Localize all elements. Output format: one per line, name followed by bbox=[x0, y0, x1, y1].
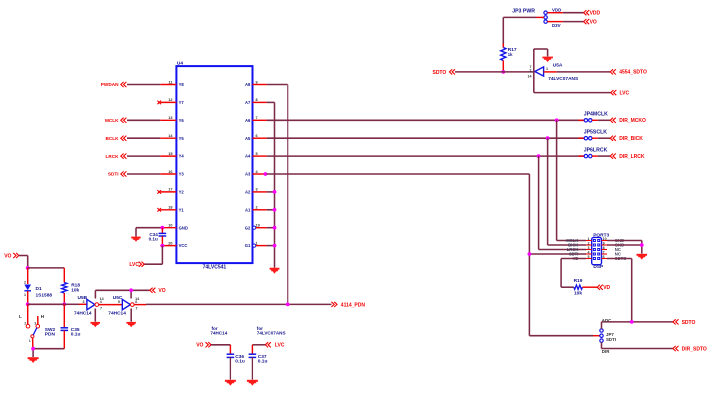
wire U5C output 4114_PDN bbox=[134, 303, 331, 305]
svg-text:1: 1 bbox=[588, 237, 590, 241]
net label VD bbox=[597, 285, 610, 291]
junction A1/ground rail bbox=[273, 208, 277, 212]
svg-text:Y3: Y3 bbox=[179, 172, 185, 177]
junction VO/D1 top bbox=[26, 266, 30, 270]
wire JP3 pin1 to VDD bbox=[547, 12, 583, 14]
capacitor C37 0.1u bbox=[249, 354, 268, 380]
wire SDTO to U5A output bbox=[455, 71, 535, 73]
wire R17 to SDTO net bbox=[502, 61, 504, 72]
svg-text:GND: GND bbox=[179, 225, 188, 230]
svg-text:MCLK: MCLK bbox=[105, 118, 119, 123]
svg-text:10k: 10k bbox=[71, 288, 79, 294]
net label LVC (left) bbox=[129, 262, 144, 268]
svg-text:U5A: U5A bbox=[553, 62, 563, 68]
svg-text:L: L bbox=[19, 314, 22, 319]
PORT3 pin 5 VD (left) bbox=[573, 255, 592, 261]
svg-text:15: 15 bbox=[168, 152, 172, 156]
ground symbol (C37) bbox=[247, 380, 258, 386]
wire PORT3 GND pins to ground bbox=[607, 241, 642, 254]
svg-text:SDTI: SDTI bbox=[606, 337, 616, 342]
junction switch/C35 ground node bbox=[31, 347, 35, 351]
wire A1 to ground rail bbox=[267, 209, 275, 211]
capacitor C36 0.1u bbox=[227, 354, 245, 380]
wire VO to D1/R18 bbox=[19, 256, 28, 268]
junction ADC/SDTO branch bbox=[630, 320, 634, 324]
wire SDTI bus A3 to PORT3/JP7 bbox=[267, 174, 530, 336]
pin 4 A3 of U4 (right) bbox=[245, 170, 267, 177]
pin 8 A7 of U4 (right) bbox=[245, 98, 267, 105]
svg-text:DIR: DIR bbox=[602, 349, 610, 354]
label for 74LVC07ANS bbox=[257, 326, 286, 335]
svg-text:U5B: U5B bbox=[78, 295, 88, 301]
net label 4554_SDTO bbox=[610, 69, 647, 75]
wire LRCK bus A4 to JP6 bbox=[267, 155, 585, 157]
pin 1 G1 of U4 (right) bbox=[245, 241, 267, 248]
net label VO (top right) bbox=[584, 19, 597, 25]
net label LRCK (input port, left) bbox=[105, 154, 126, 159]
svg-text:PWDAN: PWDAN bbox=[101, 82, 119, 87]
PORT3 pin 4 SDTI (left) bbox=[569, 250, 592, 256]
junction LRCK/PORT3 branch bbox=[537, 154, 541, 158]
junction GND pins bbox=[640, 243, 644, 247]
svg-text:A6: A6 bbox=[245, 118, 251, 123]
svg-text:Y1: Y1 bbox=[179, 207, 185, 212]
svg-text:12: 12 bbox=[168, 98, 172, 102]
svg-text:A3: A3 bbox=[245, 172, 251, 177]
wire VO rail to U5B/U5C pin14 bbox=[95, 290, 149, 298]
svg-text:VDD: VDD bbox=[590, 11, 601, 17]
pin 19 G2 of U4 (right) bbox=[245, 224, 267, 231]
PORT3 pin 10 GND (right) bbox=[602, 237, 625, 243]
wire JP7 pin3 DIR to DIR_SDTO bbox=[602, 342, 673, 348]
svg-text:DIR_SDTO: DIR_SDTO bbox=[682, 346, 707, 352]
pin 16 Y3 of U4 (left) bbox=[160, 170, 184, 177]
IC U4 74LVC541 body bbox=[176, 61, 252, 271]
ground symbol (U5C) bbox=[126, 322, 135, 327]
svg-text:VD: VD bbox=[603, 285, 610, 291]
svg-text:3: 3 bbox=[34, 321, 36, 325]
svg-text:JP6LRCK: JP6LRCK bbox=[584, 148, 608, 154]
wire G1 to ground rail bbox=[267, 245, 275, 247]
junction VO rail / U5C pin14 bbox=[129, 288, 133, 292]
net label 4114_PDN bbox=[331, 302, 365, 309]
wire PWDAN to U4 bbox=[127, 84, 160, 86]
pin 11 Y8 of U4 (left) bbox=[160, 80, 184, 87]
switch SW2 PDN bbox=[19, 304, 56, 348]
svg-text:0.1u: 0.1u bbox=[149, 237, 158, 242]
svg-text:G2: G2 bbox=[245, 225, 251, 230]
net label VO (bottom middle) bbox=[196, 342, 211, 348]
svg-text:20: 20 bbox=[168, 241, 172, 245]
svg-text:PORT3: PORT3 bbox=[593, 232, 609, 238]
svg-text:10: 10 bbox=[603, 237, 607, 241]
svg-text:A4: A4 bbox=[245, 154, 251, 159]
wire SDTI net to JP7 pin2 bbox=[529, 335, 599, 337]
net label BCLK (input port, left) bbox=[105, 136, 126, 141]
svg-text:74LVC07ANS: 74LVC07ANS bbox=[257, 331, 286, 336]
svg-text:7: 7 bbox=[256, 116, 258, 120]
net label VO (bottom left) bbox=[4, 253, 19, 260]
svg-text:1: 1 bbox=[24, 293, 26, 297]
svg-text:JP5SCLK: JP5SCLK bbox=[584, 130, 608, 136]
junction G1/ground rail bbox=[273, 244, 277, 248]
inverter U5C 74HC14 bbox=[108, 295, 139, 316]
svg-text:7: 7 bbox=[603, 250, 605, 254]
wire U5A power loop to power arrow bbox=[534, 49, 548, 72]
wire U5B output to U5C input bbox=[99, 304, 123, 306]
ground symbol (C36) bbox=[225, 380, 236, 386]
svg-text:Y7: Y7 bbox=[179, 100, 185, 105]
svg-text:LVC: LVC bbox=[620, 90, 630, 96]
svg-text:17: 17 bbox=[168, 188, 172, 192]
svg-text:8: 8 bbox=[256, 98, 258, 102]
svg-text:1S1588: 1S1588 bbox=[36, 292, 53, 298]
pin 13 Y6 of U4 (left) bbox=[160, 116, 184, 123]
svg-text:2: 2 bbox=[24, 321, 26, 325]
jumper JP7 bbox=[600, 318, 616, 354]
wire VCC pin20 to LVC bbox=[145, 246, 163, 265]
wire JP6LRCK to DIR_LRCK bbox=[598, 155, 611, 157]
svg-text:3: 3 bbox=[256, 188, 258, 192]
power symbol (U5A) bbox=[542, 57, 553, 62]
junction U4 pin20 / C34 / LVC bbox=[161, 244, 165, 248]
wire MCLK bus A6 to JP4 bbox=[267, 119, 585, 121]
wire VO to C36 bbox=[211, 345, 230, 354]
resistor R17 1k bbox=[501, 44, 517, 61]
PORT3 pin 9 GND (right) bbox=[602, 241, 625, 247]
svg-text:A8: A8 bbox=[245, 82, 251, 87]
wire U5C pin7 to ground bbox=[130, 309, 132, 322]
pin 5 A4 of U4 (right) bbox=[245, 152, 267, 159]
svg-text:DIR_LRCK: DIR_LRCK bbox=[619, 154, 645, 160]
svg-text:Y5: Y5 bbox=[179, 136, 185, 141]
net label DIR_LRCK bbox=[610, 154, 645, 160]
svg-text:74HC14: 74HC14 bbox=[74, 310, 92, 316]
buffer U5A 74LVC07ANS bbox=[528, 62, 580, 81]
wire SDTI to U4 bbox=[127, 173, 160, 175]
svg-text:74HC14: 74HC14 bbox=[210, 331, 227, 336]
wire D1 top to R18 top bbox=[28, 267, 65, 269]
wire JP3 pin3 to VO bbox=[547, 21, 583, 23]
wire A7 pin8 to ground rail bbox=[267, 102, 275, 267]
svg-text:LVC: LVC bbox=[275, 343, 285, 349]
pin 18 Y1 of U4 (left) bbox=[157, 206, 184, 213]
svg-text:VCC: VCC bbox=[179, 243, 188, 248]
wire LRCK to U4 bbox=[127, 155, 160, 157]
wire R19 to VD bbox=[582, 286, 597, 288]
svg-text:74LVC07ANS: 74LVC07ANS bbox=[548, 76, 579, 82]
wire A2 to ground rail bbox=[267, 191, 275, 193]
net label SDTO (bottom right) bbox=[673, 319, 696, 326]
wire PORT3 VD pin5 to R19 bbox=[561, 259, 586, 288]
wire MCLK to U4 bbox=[127, 119, 160, 121]
PORT3 pin 8 NC (right) bbox=[602, 246, 621, 252]
svg-text:A1: A1 bbox=[245, 207, 251, 212]
svg-text:2: 2 bbox=[24, 280, 26, 284]
pin 15 Y4 of U4 (left) bbox=[160, 152, 184, 159]
inverter U5B 74HC14 bbox=[74, 295, 104, 316]
svg-text:SDTO: SDTO bbox=[682, 320, 696, 326]
svg-text:9: 9 bbox=[603, 241, 605, 245]
pin 3 A2 of U4 (right) bbox=[245, 188, 267, 195]
resistor R18 10k bbox=[62, 268, 81, 304]
wire PORT3 SDTO pin6 down to ADC node bbox=[607, 259, 632, 322]
svg-text:2: 2 bbox=[256, 206, 258, 210]
net label DIR_SDTO bbox=[673, 346, 707, 353]
svg-text:LRCK: LRCK bbox=[105, 154, 119, 159]
jumper JP4MCLK bbox=[579, 112, 609, 122]
svg-text:11: 11 bbox=[168, 80, 172, 84]
svg-text:7: 7 bbox=[136, 307, 138, 311]
wire BCLK to U4 bbox=[127, 137, 160, 139]
svg-text:R19: R19 bbox=[574, 278, 583, 284]
wire G2 to ground rail bbox=[267, 227, 275, 229]
net label LVC (bottom middle) bbox=[265, 342, 285, 348]
svg-text:PDN: PDN bbox=[45, 332, 56, 338]
connector PORT3 (DSP header) body bbox=[592, 232, 610, 270]
svg-text:74HC14: 74HC14 bbox=[108, 310, 126, 316]
wire SDTI branch to PORT3 pin4 bbox=[529, 253, 586, 255]
svg-text:7: 7 bbox=[100, 307, 102, 311]
svg-text:D3V: D3V bbox=[552, 23, 561, 28]
junction U4 pin10 / C34 bbox=[161, 226, 165, 230]
wire LRCK branch down to PORT3 pin3 bbox=[539, 156, 586, 249]
wire switch common / C35 to ground bbox=[33, 349, 64, 357]
svg-text:SDTI: SDTI bbox=[108, 172, 119, 177]
svg-text:Y6: Y6 bbox=[179, 118, 185, 123]
capacitor C34 0.1u bbox=[149, 228, 167, 246]
svg-text:10: 10 bbox=[168, 224, 172, 228]
PORT3 pin 3 LRCK (left) bbox=[567, 246, 592, 252]
junction BCLK/PORT3 branch bbox=[546, 136, 550, 140]
junction marker on A3 wire bbox=[264, 172, 268, 176]
svg-text:74LVC541: 74LVC541 bbox=[203, 265, 227, 271]
pin 12 Y7 of U4 (left) bbox=[157, 98, 184, 105]
svg-text:VO: VO bbox=[4, 254, 11, 260]
svg-text:BCLK: BCLK bbox=[105, 136, 119, 141]
svg-text:4: 4 bbox=[588, 250, 590, 254]
wire PDN node to U5B input bbox=[28, 303, 87, 305]
net label PWDAN (input port, left) bbox=[101, 82, 127, 87]
PORT3 pin 1 MCLK (left) bbox=[566, 237, 591, 243]
pin 6 A5 of U4 (right) bbox=[245, 134, 267, 141]
pin 2 A1 of U4 (right) bbox=[245, 206, 267, 213]
junction G2/ground rail bbox=[273, 226, 277, 230]
connector JP3 PWR bbox=[512, 7, 561, 27]
wire JP4MCLK to DIR_MCKO bbox=[598, 119, 611, 121]
svg-text:Y8: Y8 bbox=[179, 82, 185, 87]
svg-text:U4: U4 bbox=[177, 61, 183, 67]
wire A8 pin9 to 4114_PDN net bbox=[267, 85, 288, 305]
pin 10 GND of U4 (left) bbox=[160, 224, 188, 231]
svg-text:DSP: DSP bbox=[593, 264, 604, 270]
wire U5A pin1 to 4554_SDTO bbox=[544, 71, 611, 73]
PORT3 pin 7 NC (right) bbox=[602, 250, 621, 256]
net label DIR_MCKO bbox=[610, 118, 646, 124]
net label VO (gates) bbox=[150, 288, 166, 295]
wire BCLK bus A5 to JP5 bbox=[267, 137, 585, 139]
svg-text:0.1u: 0.1u bbox=[235, 358, 245, 364]
svg-text:A2: A2 bbox=[245, 190, 251, 195]
svg-text:1k: 1k bbox=[508, 52, 513, 57]
svg-text:G1: G1 bbox=[245, 243, 251, 248]
svg-text:VO: VO bbox=[590, 19, 597, 25]
junction R18 bottom / node bbox=[62, 302, 66, 306]
svg-text:A5: A5 bbox=[245, 136, 251, 141]
svg-text:2: 2 bbox=[530, 69, 532, 73]
jumper JP5SCLK bbox=[579, 130, 608, 140]
svg-text:10k: 10k bbox=[574, 291, 582, 297]
label for 74HC14 bbox=[210, 326, 227, 335]
svg-text:8: 8 bbox=[603, 246, 605, 250]
svg-text:JP3 PWR: JP3 PWR bbox=[512, 9, 535, 15]
svg-text:9: 9 bbox=[256, 80, 258, 84]
diode D1 1S1588 bbox=[24, 268, 52, 304]
junction D1 bottom / node bbox=[26, 302, 30, 306]
svg-text:18: 18 bbox=[168, 206, 172, 210]
capacitor C35 0.1u bbox=[61, 304, 81, 348]
svg-text:VO: VO bbox=[196, 343, 203, 349]
junction SDTI/PORT3 pin4 bbox=[528, 252, 532, 256]
junction 4114_PDN / A8 branch bbox=[286, 303, 290, 307]
svg-text:DIR_MCKO: DIR_MCKO bbox=[619, 118, 646, 124]
pin 20 VCC of U4 (left) bbox=[160, 241, 187, 248]
svg-text:1: 1 bbox=[546, 67, 548, 71]
wire LVC to C37 bbox=[252, 345, 265, 354]
svg-text:6: 6 bbox=[603, 255, 605, 259]
ground symbol (U5B) bbox=[91, 322, 101, 327]
svg-text:14: 14 bbox=[135, 297, 139, 301]
ground symbol (PORT3) bbox=[637, 254, 648, 260]
pin 14 Y5 of U4 (left) bbox=[160, 134, 184, 141]
wire JP5SCLK to DIR_BICK bbox=[598, 137, 611, 139]
svg-text:VDD: VDD bbox=[552, 7, 561, 12]
wire JP7 pin1 ADC to SDTO bbox=[602, 322, 673, 329]
net label LVC (right) bbox=[611, 90, 630, 96]
svg-text:SDTO: SDTO bbox=[432, 70, 446, 76]
jumper JP6LRCK bbox=[579, 148, 608, 158]
svg-text:2: 2 bbox=[588, 241, 590, 245]
ground symbol (U4 GND) bbox=[131, 237, 141, 242]
pin 17 Y2 of U4 (left) bbox=[157, 188, 184, 195]
net label SDTI (input port, left) bbox=[108, 171, 127, 176]
svg-text:4554_SDTO: 4554_SDTO bbox=[619, 70, 647, 76]
ground symbol (SW2) bbox=[28, 357, 39, 363]
svg-text:JP4MCLK: JP4MCLK bbox=[584, 112, 608, 118]
svg-text:5: 5 bbox=[256, 152, 258, 156]
svg-text:Y4: Y4 bbox=[179, 154, 185, 159]
svg-text:A7: A7 bbox=[245, 100, 251, 105]
svg-text:4114_PDN: 4114_PDN bbox=[341, 302, 366, 308]
svg-text:U5C: U5C bbox=[113, 295, 123, 301]
wire U5B pin7 to ground bbox=[94, 309, 96, 322]
svg-text:0.1u: 0.1u bbox=[71, 332, 81, 338]
svg-text:5: 5 bbox=[588, 255, 590, 259]
ground symbol (A7/A2/A1/G2/G1) bbox=[270, 268, 280, 274]
svg-text:16: 16 bbox=[168, 170, 172, 174]
PORT3 pin 6 SDTO (right) bbox=[602, 255, 628, 261]
junction R17/SDTO bbox=[501, 70, 505, 74]
PORT3 pin 2 BICK (left) bbox=[568, 241, 592, 247]
net label VDD bbox=[584, 10, 601, 16]
net label DIR_BICK bbox=[610, 136, 643, 142]
net label SDTO (mid) bbox=[432, 69, 455, 76]
net label MCLK (input port, left) bbox=[105, 118, 126, 123]
pin 9 A8 of U4 (right) bbox=[245, 80, 267, 87]
svg-text:VO: VO bbox=[158, 288, 165, 294]
wire MCLK branch down to PORT3 pin1 bbox=[557, 120, 586, 240]
svg-text:3: 3 bbox=[588, 246, 590, 250]
svg-text:0.1u: 0.1u bbox=[258, 358, 268, 364]
svg-text:1: 1 bbox=[29, 339, 31, 343]
wire BCLK branch down to PORT3 pin2 bbox=[548, 138, 586, 245]
pin 7 A6 of U4 (right) bbox=[245, 116, 267, 123]
svg-text:D1: D1 bbox=[36, 286, 42, 292]
svg-text:14: 14 bbox=[100, 297, 104, 301]
svg-text:Y2: Y2 bbox=[179, 190, 185, 195]
svg-text:14: 14 bbox=[528, 75, 532, 79]
resistor R19 10k bbox=[574, 278, 583, 296]
svg-text:6: 6 bbox=[256, 134, 258, 138]
svg-text:LVC: LVC bbox=[129, 262, 139, 268]
svg-text:13: 13 bbox=[168, 116, 172, 120]
wire U4 pin10 GND to ground bbox=[136, 228, 162, 237]
svg-text:DIR_BICK: DIR_BICK bbox=[619, 136, 643, 142]
junction A2/ground rail bbox=[273, 190, 277, 194]
wire U5A pin14 to LVC bbox=[534, 72, 611, 93]
junction MCLK/PORT3 branch bbox=[555, 118, 559, 122]
wire JP3 pin2 to R17 bbox=[503, 17, 544, 47]
